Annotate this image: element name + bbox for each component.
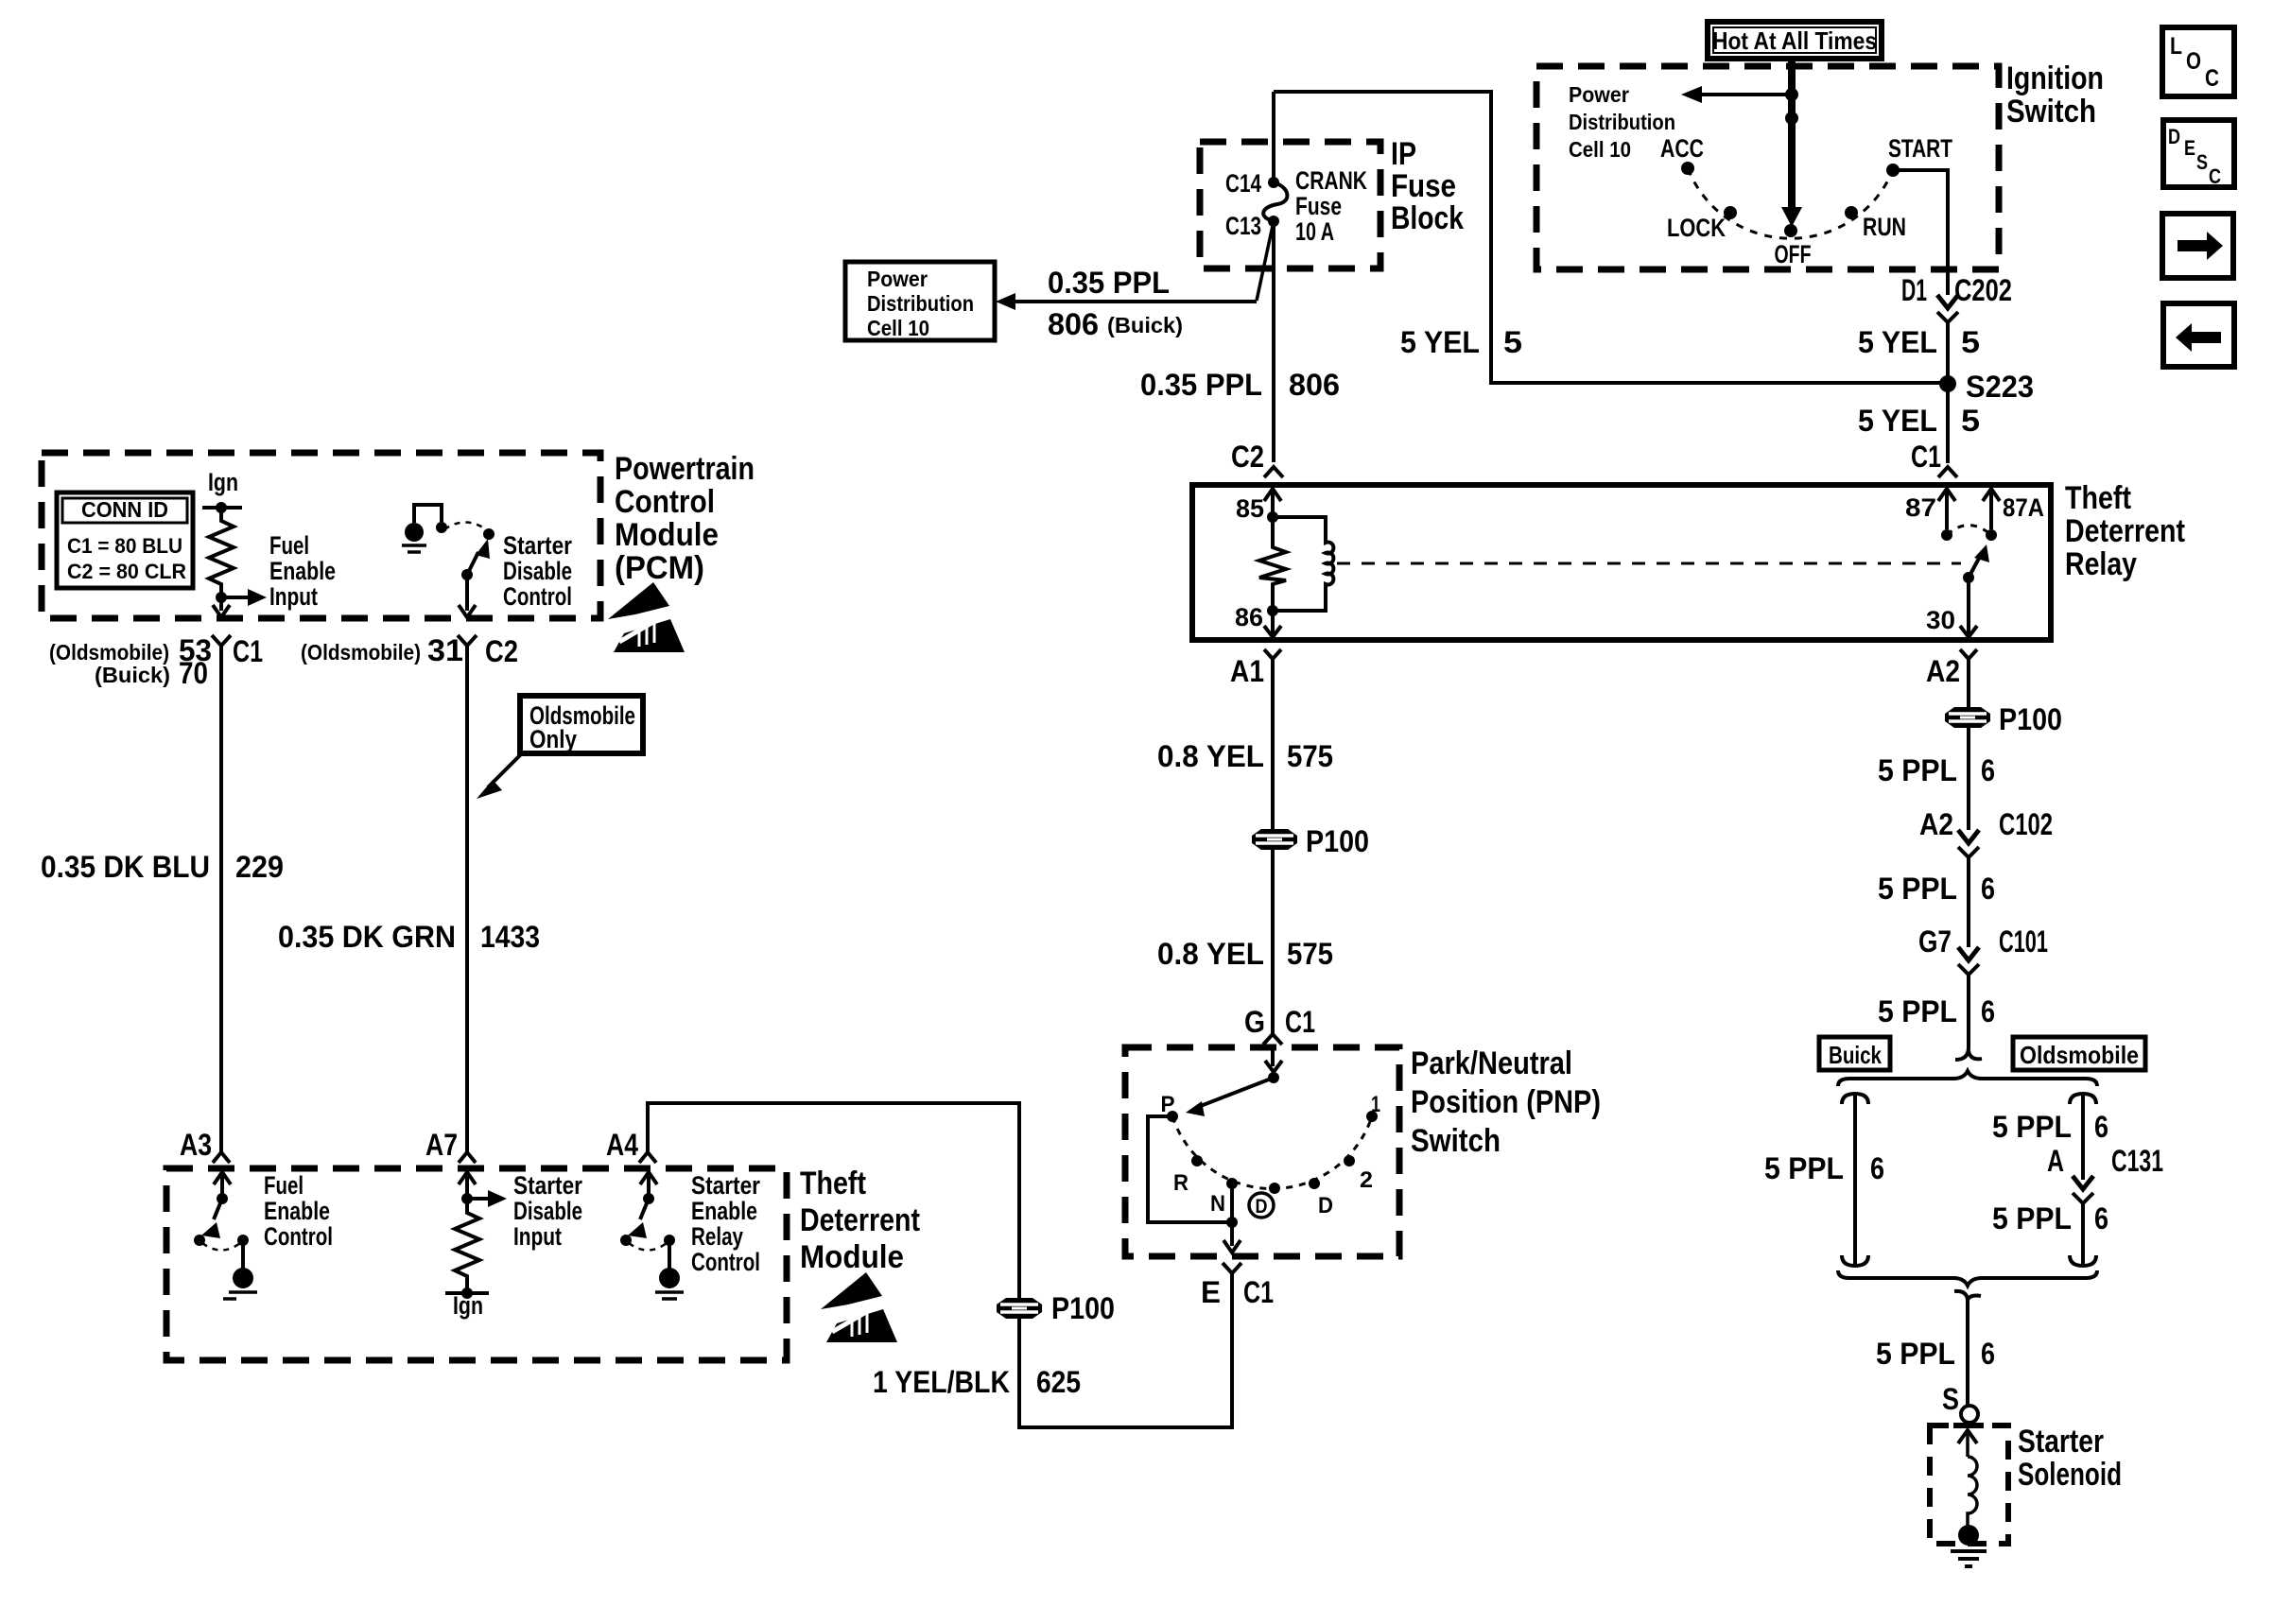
IP Fuse Block label bbox=[1391, 136, 1464, 236]
Theft Deterrent Module label bbox=[800, 1166, 920, 1275]
svg-text:D: D bbox=[1256, 1196, 1268, 1218]
CRANK Fuse 10 A value label bbox=[1295, 166, 1367, 246]
Oldsmobile Only callout arrow bbox=[488, 753, 522, 787]
svg-text:Input: Input bbox=[513, 1222, 562, 1251]
svg-text:1 YEL/BLK: 1 YEL/BLK bbox=[873, 1365, 1010, 1399]
Ign bar (TDM) bbox=[445, 1291, 489, 1295]
LOCK contact bbox=[1724, 206, 1737, 219]
svg-text:Fuel: Fuel bbox=[264, 1171, 304, 1200]
wire C102 to C101 bbox=[1967, 857, 1970, 947]
arm pivot dot bbox=[461, 569, 473, 580]
svg-text:R: R bbox=[1173, 1170, 1189, 1196]
svg-text:D: D bbox=[1318, 1193, 1333, 1218]
svg-text:G: G bbox=[1244, 1005, 1265, 1039]
fuel enable resistor bbox=[209, 508, 234, 597]
battery feed arrowhead bbox=[1781, 207, 1802, 227]
85 junction dot bbox=[1267, 511, 1278, 523]
R contact dot bbox=[1191, 1155, 1203, 1166]
low contact dot bbox=[1269, 1183, 1280, 1194]
pin 87A arrow bbox=[1983, 489, 2000, 501]
svg-text:85: 85 bbox=[1236, 494, 1264, 523]
svg-text:Cell 10: Cell 10 bbox=[867, 316, 929, 340]
svg-text:A2: A2 bbox=[1926, 654, 1960, 688]
C14 terminal dot bbox=[1268, 177, 1279, 188]
svg-text:E: E bbox=[1201, 1275, 1221, 1309]
wire P100 down to G C1 bbox=[1271, 850, 1275, 1034]
svg-text:C1: C1 bbox=[233, 634, 263, 668]
connector A2 chevron bbox=[1960, 649, 1977, 659]
svg-text:Control: Control bbox=[691, 1248, 760, 1276]
svg-text:CONN ID: CONN ID bbox=[81, 497, 168, 522]
svg-text:Only: Only bbox=[529, 725, 577, 753]
starter enable ground dot bbox=[659, 1268, 680, 1288]
svg-text:Ignition: Ignition bbox=[2006, 60, 2104, 96]
Ign junction dot (TDM) bbox=[461, 1287, 473, 1299]
starter enable switch arm bbox=[640, 1199, 649, 1219]
contact to ground stem (A4) bbox=[668, 1240, 671, 1269]
svg-text:5: 5 bbox=[1961, 325, 1980, 359]
connector C1 chevron at relay bbox=[1938, 467, 1957, 477]
svg-text:RUN: RUN bbox=[1863, 213, 1906, 241]
wire to power distribution (left arrow) bbox=[1702, 93, 1792, 96]
svg-text:P100: P100 bbox=[1306, 824, 1369, 858]
OFF contact bbox=[1784, 224, 1797, 237]
svg-text:(Buick): (Buick) bbox=[95, 663, 170, 687]
svg-text:229: 229 bbox=[235, 850, 284, 884]
svg-text:0.35 PPL: 0.35 PPL bbox=[1140, 368, 1262, 402]
svg-text:6: 6 bbox=[1981, 1337, 1995, 1371]
1 contact dot bbox=[1366, 1111, 1378, 1122]
5 PPL 6 label (Olds upper) bbox=[1992, 1110, 2108, 1144]
left arrowhead bbox=[1681, 86, 1702, 103]
svg-text:Switch: Switch bbox=[2006, 94, 2096, 130]
PNP exit wire with arrow bbox=[1230, 1222, 1234, 1246]
svg-text:0.35 DK GRN: 0.35 DK GRN bbox=[278, 920, 456, 954]
P100 grommet (left) bbox=[997, 1298, 1042, 1319]
svg-text:Deterrent: Deterrent bbox=[800, 1202, 920, 1238]
svg-text:C2 = 80 CLR: C2 = 80 CLR bbox=[67, 560, 186, 583]
svg-text:Hot At All Times: Hot At All Times bbox=[1712, 26, 1877, 55]
svg-text:(Oldsmobile): (Oldsmobile) bbox=[49, 640, 169, 665]
Oldsmobile tag box bbox=[2013, 1037, 2145, 1070]
relay arm pivot dot bbox=[1963, 572, 1974, 583]
87 contact dot bbox=[1941, 529, 1952, 541]
junction on feed wire bbox=[1785, 88, 1798, 101]
wire 806 to power distribution box bbox=[1015, 300, 1257, 303]
P contact dot bbox=[1167, 1111, 1178, 1122]
Theft Deterrent Relay label bbox=[2065, 480, 2185, 582]
svg-text:C202: C202 bbox=[1954, 273, 2012, 307]
wire to starter solenoid bbox=[1966, 1297, 1969, 1407]
IP fuse block dashed box bbox=[1200, 142, 1380, 268]
fuel enable input arrow bbox=[221, 596, 248, 599]
svg-text:0.8 YEL: 0.8 YEL bbox=[1157, 937, 1264, 971]
pin 30 wire bbox=[1967, 578, 1970, 635]
svg-text:Disable: Disable bbox=[513, 1197, 582, 1225]
Oldsmobile branch wire lower bbox=[2081, 1203, 2085, 1266]
DESC box bbox=[2163, 120, 2234, 188]
svg-text:575: 575 bbox=[1287, 937, 1333, 971]
fuel enable right contact dot bbox=[237, 1235, 249, 1246]
connector C131 female chevron bbox=[2073, 1193, 2093, 1203]
svg-text:C1: C1 bbox=[1911, 440, 1941, 474]
wire P100 up to theft module A4 run bbox=[648, 1103, 1019, 1298]
starter solenoid dashed box bbox=[1930, 1425, 2008, 1544]
connector C102 male chevron bbox=[1958, 830, 1979, 843]
5 YEL 5 label (below S223) bbox=[1858, 404, 1980, 438]
svg-text:A1: A1 bbox=[1230, 654, 1264, 688]
starter disable input arrow bbox=[467, 1197, 488, 1201]
connector A7 chevron bbox=[459, 1152, 476, 1163]
wire start hook bbox=[1954, 1291, 1981, 1300]
relay switch arm bbox=[1969, 553, 1982, 578]
connector C101 male chevron bbox=[1958, 947, 1979, 960]
svg-text:6: 6 bbox=[1870, 1151, 1884, 1185]
ESD symbol (PCM) bbox=[608, 582, 685, 652]
wire E C1 down left and up to P100 bbox=[1019, 1273, 1232, 1427]
svg-text:5 YEL: 5 YEL bbox=[1858, 404, 1937, 438]
strap junction dot bbox=[1226, 1217, 1238, 1228]
svg-text:70: 70 bbox=[179, 656, 208, 690]
fuel enable throw dashed arc bbox=[202, 1243, 240, 1251]
svg-text:A: A bbox=[2047, 1144, 2064, 1178]
svg-text:C101: C101 bbox=[1999, 924, 2048, 959]
(Buick) 70 label bbox=[95, 656, 208, 690]
starter enable ground bbox=[655, 1292, 684, 1299]
svg-text:Enable: Enable bbox=[691, 1197, 757, 1225]
svg-text:ACC: ACC bbox=[1660, 134, 1704, 163]
svg-text:P100: P100 bbox=[1999, 702, 2062, 736]
5 YEL 5 label (upper right) bbox=[1858, 325, 1980, 359]
pin 85 arrow bbox=[1264, 489, 1281, 501]
svg-text:C102: C102 bbox=[1999, 807, 2053, 841]
solenoid entry arrow up bbox=[1958, 1430, 1977, 1443]
svg-text:S: S bbox=[1942, 1382, 1959, 1416]
P100 grommet (center) bbox=[1252, 829, 1297, 850]
svg-text:86: 86 bbox=[1235, 603, 1263, 631]
svg-text:0.8 YEL: 0.8 YEL bbox=[1157, 739, 1264, 773]
86 junction dot bbox=[1267, 605, 1278, 616]
A3 entry arrow up bbox=[214, 1172, 231, 1184]
ignition switch dashed box bbox=[1536, 66, 1999, 269]
ground bracket wire bbox=[414, 505, 442, 523]
svg-text:6: 6 bbox=[1981, 872, 1995, 906]
fixed contact dot bbox=[436, 522, 447, 533]
0.35 PPL 806 label bbox=[1140, 368, 1340, 402]
(Oldsmobile) 31 C2 label bbox=[301, 633, 518, 668]
svg-text:E: E bbox=[2184, 136, 2195, 160]
svg-text:5 PPL: 5 PPL bbox=[1878, 872, 1957, 906]
svg-text:Oldsmobile: Oldsmobile bbox=[2020, 1041, 2139, 1069]
svg-text:Cell 10: Cell 10 bbox=[1569, 137, 1631, 162]
svg-text:Module: Module bbox=[615, 517, 719, 553]
svg-text:Module: Module bbox=[800, 1239, 904, 1275]
fuel enable pivot dot bbox=[217, 1193, 228, 1204]
svg-text:1: 1 bbox=[1371, 1092, 1380, 1117]
ACC contact bbox=[1681, 162, 1694, 175]
connector C2 chevron (PCM out) bbox=[458, 635, 477, 646]
connector E C1 chevron bbox=[1223, 1263, 1241, 1273]
svg-text:C2: C2 bbox=[485, 634, 518, 668]
connector C202 female chevron bbox=[1937, 312, 1958, 322]
svg-text:C1: C1 bbox=[1243, 1275, 1274, 1309]
87A contact dot bbox=[1986, 529, 1997, 541]
svg-text:5 YEL: 5 YEL bbox=[1400, 325, 1480, 359]
svg-text:10 A: 10 A bbox=[1295, 217, 1334, 246]
wire A2 to P100 bbox=[1967, 659, 1970, 707]
Starter Disable Input label bbox=[513, 1171, 582, 1251]
svg-text:Relay: Relay bbox=[691, 1222, 743, 1251]
svg-text:START: START bbox=[1888, 134, 1952, 163]
Oldsmobile branch bottom curl bbox=[2070, 1255, 2096, 1266]
D contact dot bbox=[1309, 1178, 1320, 1189]
svg-text:Distribution: Distribution bbox=[867, 291, 974, 316]
svg-text:575: 575 bbox=[1287, 739, 1333, 773]
5 PPL 6 label (Olds lower) bbox=[1992, 1201, 2108, 1235]
resistor output junction dot bbox=[216, 592, 227, 603]
starter disable ground dot bbox=[405, 523, 424, 542]
relay coil bbox=[1273, 517, 1333, 611]
svg-text:Distribution: Distribution bbox=[1569, 110, 1675, 134]
starter disable resistor bbox=[455, 1199, 479, 1290]
fuel enable output arrow down bbox=[219, 597, 223, 611]
svg-text:5 PPL: 5 PPL bbox=[1992, 1110, 2072, 1144]
contact to ground stem bbox=[241, 1240, 245, 1269]
pin 30 arrowhead bbox=[1960, 626, 1977, 637]
svg-text:Power: Power bbox=[867, 267, 928, 291]
wire A1 down to P100 bbox=[1271, 659, 1275, 829]
Buick tag box bbox=[1819, 1037, 1890, 1070]
svg-text:Theft: Theft bbox=[800, 1166, 866, 1201]
Fuel Enable Input label bbox=[269, 531, 336, 611]
wire branch to fuse block: S223 left and up bbox=[1274, 92, 1948, 383]
5 PPL 6 label 3 bbox=[1878, 994, 1995, 1028]
svg-text:5 PPL: 5 PPL bbox=[1876, 1337, 1955, 1371]
PNP entry wire with arrow bbox=[1271, 1045, 1275, 1066]
battery feed wire bbox=[1788, 59, 1796, 210]
svg-text:87: 87 bbox=[1905, 493, 1936, 522]
svg-text:C1 = 80 BLU: C1 = 80 BLU bbox=[67, 534, 182, 558]
svg-text:C: C bbox=[2209, 164, 2221, 188]
Ign stub dot bbox=[216, 502, 227, 513]
svg-text:Buick: Buick bbox=[1829, 1041, 1882, 1069]
5 YEL 5 label (left run) bbox=[1400, 325, 1522, 359]
moving contact dot bbox=[483, 528, 495, 540]
svg-text:C1: C1 bbox=[1285, 1005, 1315, 1039]
svg-text:C: C bbox=[2205, 65, 2219, 92]
Buick branch wire bbox=[1853, 1094, 1857, 1266]
svg-text:Relay: Relay bbox=[2065, 546, 2137, 582]
relay actuation dashed link bbox=[1337, 562, 1961, 565]
svg-text:(Oldsmobile): (Oldsmobile) bbox=[301, 640, 421, 665]
svg-text:806: 806 bbox=[1048, 307, 1099, 341]
svg-text:31: 31 bbox=[427, 633, 463, 667]
wire START to C202 bbox=[1893, 170, 1948, 295]
svg-text:6: 6 bbox=[2094, 1201, 2108, 1235]
ESD symbol (TDM) bbox=[821, 1272, 897, 1342]
0.8 YEL 575 label 2 bbox=[1157, 937, 1333, 971]
svg-text:5 PPL: 5 PPL bbox=[1878, 753, 1957, 787]
svg-text:C13: C13 bbox=[1225, 212, 1261, 240]
svg-text:Disable: Disable bbox=[503, 557, 572, 585]
relay coil resistor bbox=[1259, 517, 1286, 611]
svg-text:Starter: Starter bbox=[2018, 1424, 2104, 1460]
relay box bbox=[1192, 485, 2051, 640]
starter enable throw dashed arc bbox=[629, 1243, 667, 1251]
ignition rotor dashed arc bbox=[1688, 168, 1893, 238]
Ignition Switch label bbox=[2006, 60, 2104, 130]
S223 splice dot bbox=[1939, 375, 1956, 392]
svg-text:(PCM): (PCM) bbox=[615, 550, 704, 586]
Buick branch bottom curl bbox=[1842, 1255, 1868, 1266]
starter enable fixed contact dot bbox=[620, 1235, 632, 1246]
svg-text:0.35 DK BLU: 0.35 DK BLU bbox=[41, 850, 210, 884]
svg-text:Control: Control bbox=[264, 1222, 333, 1251]
svg-text:Ign: Ign bbox=[208, 468, 238, 496]
svg-text:Ign: Ign bbox=[453, 1291, 483, 1320]
Buick branch top curl bbox=[1842, 1094, 1868, 1104]
A4 entry arrow up bbox=[640, 1172, 657, 1184]
connector C1 chevron (PCM out) bbox=[212, 635, 231, 646]
connector C101 female chevron bbox=[1958, 964, 1979, 975]
solenoid ground bbox=[1951, 1551, 1987, 1566]
connector C2 chevron at relay bbox=[1264, 467, 1283, 477]
fuel enable ground dot bbox=[233, 1268, 253, 1288]
Park/Neutral Position (PNP) Switch label bbox=[1411, 1045, 1601, 1159]
svg-text:6: 6 bbox=[2094, 1110, 2108, 1144]
svg-text:C2: C2 bbox=[1231, 440, 1264, 474]
svg-text:Position (PNP): Position (PNP) bbox=[1411, 1084, 1601, 1120]
svg-text:G7: G7 bbox=[1918, 924, 1952, 959]
5 PPL 6 label (Buick) bbox=[1764, 1151, 1884, 1185]
C13 terminal dot bbox=[1268, 216, 1279, 227]
connector C202 male chevron bbox=[1937, 295, 1958, 308]
Hot At All Times box bbox=[1708, 22, 1882, 59]
svg-text:Starter: Starter bbox=[513, 1171, 582, 1200]
svg-text:O: O bbox=[2186, 48, 2201, 75]
connector A1 chevron bbox=[1264, 649, 1281, 659]
1 YEL/BLK 625 label bbox=[873, 1365, 1081, 1399]
RUN contact bbox=[1845, 206, 1858, 219]
svg-text:6: 6 bbox=[1981, 994, 1995, 1028]
connector C131 male chevron bbox=[2073, 1176, 2093, 1189]
back arrow box bbox=[2163, 303, 2234, 367]
svg-text:Powertrain: Powertrain bbox=[615, 451, 755, 487]
S ring terminal bbox=[1961, 1406, 1978, 1423]
wire PCM C1 to TDM A3 bbox=[219, 646, 223, 1152]
svg-text:D: D bbox=[2168, 125, 2180, 148]
fuel enable fixed contact dot bbox=[194, 1235, 205, 1246]
Starter Solenoid label bbox=[2018, 1424, 2122, 1493]
Oldsmobile Only callout box bbox=[520, 696, 643, 753]
2 contact dot bbox=[1344, 1155, 1355, 1166]
wire C13 diagonal to 806 branch bbox=[1257, 221, 1274, 301]
PCM dashed box bbox=[42, 453, 600, 618]
5 PPL 6 label 2 bbox=[1878, 872, 1995, 906]
0.8 YEL 575 label bbox=[1157, 739, 1333, 773]
START contact bbox=[1886, 164, 1900, 177]
svg-text:Solenoid: Solenoid bbox=[2018, 1457, 2122, 1493]
svg-text:Enable: Enable bbox=[264, 1197, 330, 1225]
Ign stub bar bbox=[202, 506, 242, 510]
svg-text:S: S bbox=[2196, 150, 2208, 174]
svg-text:L: L bbox=[2170, 33, 2182, 60]
svg-text:IP: IP bbox=[1391, 136, 1416, 172]
PNP contact dashed arc bbox=[1172, 1116, 1372, 1188]
(Oldsmobile) 53 C1 label bbox=[49, 633, 263, 668]
svg-text:Deterrent: Deterrent bbox=[2065, 513, 2185, 549]
wire C202 to S223 bbox=[1946, 322, 1950, 384]
Oldsmobile branch top curl bbox=[2070, 1094, 2096, 1104]
svg-text:Control: Control bbox=[615, 484, 715, 520]
CRANK fuse element bbox=[1263, 182, 1287, 221]
svg-text:(Buick): (Buick) bbox=[1107, 313, 1183, 337]
svg-text:Theft: Theft bbox=[2065, 480, 2131, 516]
svg-text:A3: A3 bbox=[180, 1128, 212, 1162]
svg-text:5: 5 bbox=[1503, 325, 1522, 359]
starter disable junction dot bbox=[461, 1193, 473, 1204]
connector C102 female chevron bbox=[1958, 847, 1979, 857]
svg-text:625: 625 bbox=[1036, 1365, 1081, 1399]
svg-text:Starter: Starter bbox=[691, 1171, 760, 1200]
svg-text:5 YEL: 5 YEL bbox=[1858, 325, 1937, 359]
Power Distribution Cell 10 text (ignition) bbox=[1569, 82, 1675, 162]
svg-text:Switch: Switch bbox=[1411, 1123, 1501, 1159]
CONN ID table bbox=[57, 492, 193, 588]
Fuel Enable Control label bbox=[264, 1171, 333, 1251]
LOC box bbox=[2162, 27, 2234, 96]
svg-text:2: 2 bbox=[1360, 1167, 1373, 1193]
svg-text:A7: A7 bbox=[425, 1128, 458, 1162]
solenoid terminal bar bbox=[1953, 1423, 1984, 1428]
svg-text:1433: 1433 bbox=[480, 920, 540, 954]
svg-text:Park/Neutral: Park/Neutral bbox=[1411, 1045, 1572, 1081]
svg-text:5 PPL: 5 PPL bbox=[1878, 994, 1957, 1028]
Powertrain Control Module (PCM) label bbox=[615, 451, 755, 586]
P100 grommet (right) bbox=[1945, 707, 1990, 728]
P to N strap wire bbox=[1148, 1116, 1232, 1222]
wire 806 vertical down to relay C2 bbox=[1272, 221, 1275, 462]
PNP dashed box bbox=[1125, 1047, 1399, 1256]
Starter Disable Control label bbox=[503, 531, 572, 611]
switch arm with arrowhead bbox=[467, 552, 478, 575]
5 PPL 6 label (solenoid) bbox=[1876, 1337, 1995, 1371]
svg-text:P100: P100 bbox=[1051, 1291, 1115, 1325]
svg-text:D1: D1 bbox=[1901, 273, 1927, 307]
svg-text:Block: Block bbox=[1391, 200, 1464, 236]
pin 87 arrow bbox=[1938, 489, 1955, 501]
svg-text:Starter: Starter bbox=[503, 531, 572, 560]
wire top into C14 bbox=[1272, 92, 1275, 180]
svg-text:806: 806 bbox=[1289, 368, 1340, 402]
N contact dot bbox=[1226, 1178, 1238, 1189]
svg-text:5 PPL: 5 PPL bbox=[1764, 1151, 1844, 1185]
junction on feed wire 2 bbox=[1785, 112, 1798, 125]
svg-text:Fuel: Fuel bbox=[269, 531, 309, 560]
connector A3 chevron bbox=[213, 1152, 230, 1163]
PNP wiper arm to P bbox=[1198, 1078, 1274, 1107]
forward arrow box bbox=[2162, 214, 2233, 278]
svg-text:A4: A4 bbox=[606, 1128, 638, 1162]
wire end hook bbox=[1955, 1047, 1982, 1060]
dashed throw arc (PCM switch) bbox=[444, 523, 486, 530]
Power Distribution Cell 10 box bbox=[845, 262, 995, 340]
svg-text:Fuse: Fuse bbox=[1391, 168, 1456, 204]
starter enable pivot dot bbox=[643, 1193, 654, 1204]
svg-text:Power: Power bbox=[1569, 82, 1629, 107]
wire S223 to relay C1 bbox=[1946, 384, 1950, 463]
circled D indicator bbox=[1249, 1193, 1274, 1218]
